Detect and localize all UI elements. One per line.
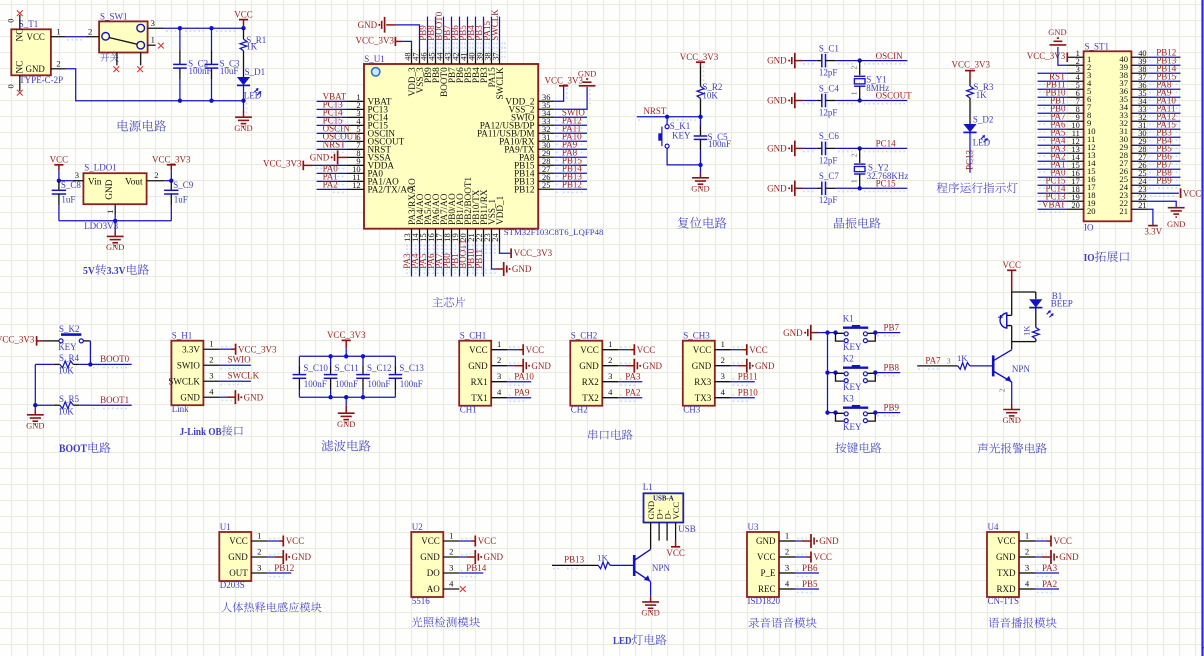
wire GND to key rail xyxy=(819,332,828,334)
svg-text:S_K1: S_K1 xyxy=(670,121,691,131)
svg-text:3: 3 xyxy=(75,170,79,180)
svg-text:PB7: PB7 xyxy=(884,322,900,332)
svg-text:TYPE-C-2P: TYPE-C-2P xyxy=(19,75,63,85)
U1 pin 24 VDD_1 xyxy=(499,229,501,244)
U1 pin 42 PB6 xyxy=(459,49,461,64)
U1 pin 10 PA0 xyxy=(348,172,365,174)
U1 pin 40 PB4 xyxy=(475,49,477,64)
svg-text:BOOT0: BOOT0 xyxy=(100,354,129,364)
svg-text:12: 12 xyxy=(352,181,360,190)
svg-text:1: 1 xyxy=(849,179,858,183)
svg-text:1: 1 xyxy=(608,339,612,349)
wire bottom rail xyxy=(299,396,395,398)
wire net PB0 xyxy=(1038,112,1068,114)
capacitor S_C1 xyxy=(803,60,817,62)
svg-text:12pF: 12pF xyxy=(819,107,838,117)
svg-text:4: 4 xyxy=(209,387,214,397)
svg-text:SWIO: SWIO xyxy=(228,355,251,365)
ST1 pin 19 xyxy=(1068,200,1084,202)
wire net PB8 xyxy=(873,370,877,374)
U1 pin 19 PB1/AO xyxy=(459,229,461,244)
connector L1 USB-A body xyxy=(644,493,684,522)
U1 pin 3 PC14 xyxy=(348,116,365,118)
ST1 pin 29 xyxy=(1131,144,1147,146)
svg-text:100nF: 100nF xyxy=(335,379,358,389)
svg-text:10K: 10K xyxy=(58,366,74,376)
power VCC at ST1 pin 23 xyxy=(1147,192,1179,194)
wire VSS_1 to GND xyxy=(492,244,496,269)
wire base PB13 xyxy=(552,564,598,566)
svg-text:GND: GND xyxy=(756,536,776,546)
svg-text:PA3: PA3 xyxy=(1042,563,1058,573)
wire net PB9 xyxy=(427,17,429,49)
svg-text:S_D1: S_D1 xyxy=(245,67,266,77)
svg-text:3: 3 xyxy=(608,371,612,381)
svg-text:GND: GND xyxy=(643,361,663,371)
U1 pin 4 PC15 xyxy=(348,124,365,126)
svg-text:DO: DO xyxy=(427,568,440,578)
svg-text:4: 4 xyxy=(1025,578,1030,588)
ST1 pin 20 xyxy=(1068,208,1084,210)
svg-text:2: 2 xyxy=(257,546,261,556)
svg-text:TX1: TX1 xyxy=(471,393,488,403)
svg-text:PA10: PA10 xyxy=(514,372,534,382)
wire net BOOT0 xyxy=(90,363,131,365)
svg-text:LDO3V3: LDO3V3 xyxy=(84,221,118,231)
ST1 pin 30 xyxy=(1131,136,1147,138)
U1 pin 32 PA11/USB/DM xyxy=(538,132,554,134)
junction xyxy=(57,179,61,183)
wire VDD_2 to VCC_3V3 xyxy=(554,86,563,101)
U1 pin 23 VSS_1 xyxy=(491,229,493,244)
wire net PB1 xyxy=(459,244,461,277)
svg-text:S_CH1: S_CH1 xyxy=(460,331,487,341)
U1 pin 31 PA10/RX xyxy=(538,140,554,142)
svg-text:1: 1 xyxy=(106,210,115,214)
svg-text:U1: U1 xyxy=(220,522,231,532)
U1 pin 1 VBAT xyxy=(348,100,365,102)
svg-text:2: 2 xyxy=(497,355,501,365)
wire net PB14 xyxy=(1147,72,1180,74)
svg-text:2: 2 xyxy=(998,388,1007,392)
caption reset circuit xyxy=(678,217,689,228)
wire VDD_1 to VCC_3V3 xyxy=(500,244,511,254)
U1 pin 5 OSCIN xyxy=(348,132,365,134)
power VCC at S_CH1 pin 1 xyxy=(522,344,524,355)
svg-text:GND: GND xyxy=(1059,552,1079,562)
svg-text:PA2: PA2 xyxy=(323,180,338,190)
wire net PC14 xyxy=(836,147,908,149)
svg-text:VCC_3V3: VCC_3V3 xyxy=(0,335,35,345)
power GND at S_CH3 pin 2 xyxy=(746,359,748,373)
svg-text:GND: GND xyxy=(1002,415,1020,425)
wire to key K2 xyxy=(828,372,836,374)
svg-text:S_C10: S_C10 xyxy=(303,363,328,373)
wire net OSCIN xyxy=(836,60,908,62)
svg-text:CH3: CH3 xyxy=(683,405,701,415)
transistor Q1 NPN xyxy=(1011,342,1013,350)
resistor R7 1K xyxy=(598,562,610,569)
svg-text:NPN: NPN xyxy=(652,563,671,573)
regulator LDO1 body xyxy=(83,173,146,204)
wire net PA5 xyxy=(1038,136,1068,138)
wire NRST xyxy=(637,116,701,118)
U1 pin 8 VSSA xyxy=(348,156,365,158)
T1 pin 0 bottom no-connect xyxy=(19,75,21,91)
svg-text:PB10: PB10 xyxy=(738,388,759,398)
wire net PB7 xyxy=(1147,168,1180,170)
svg-text:GND: GND xyxy=(1167,219,1185,229)
wire net PA8 xyxy=(1147,88,1180,90)
svg-text:NRST: NRST xyxy=(323,140,347,150)
svg-text:4: 4 xyxy=(721,387,726,397)
svg-text:GND: GND xyxy=(767,56,787,66)
svg-text:GND: GND xyxy=(310,153,330,163)
svg-text:GND: GND xyxy=(244,392,264,402)
junction xyxy=(665,115,669,119)
wire net PA6 xyxy=(435,244,437,277)
LDO1 pin 2 xyxy=(147,180,165,182)
capacitor C8 xyxy=(58,181,60,191)
svg-text:3: 3 xyxy=(257,562,261,572)
U1 pin 14 PA4/AO xyxy=(419,229,421,244)
svg-text:BEEP: BEEP xyxy=(1051,298,1073,308)
svg-text:1: 1 xyxy=(721,339,725,349)
wire net RST xyxy=(1038,80,1068,82)
svg-text:S_K2: S_K2 xyxy=(59,324,80,334)
svg-text:PB12: PB12 xyxy=(562,180,582,190)
wire VSS_3 to GND xyxy=(395,25,419,49)
svg-text:LED: LED xyxy=(244,91,262,101)
svg-text:K1: K1 xyxy=(843,314,854,324)
svg-text:S_C6: S_C6 xyxy=(819,131,840,141)
wire at ST1 pin 3 xyxy=(1038,72,1068,74)
svg-text:PC14: PC14 xyxy=(876,139,897,149)
svg-text:PB5: PB5 xyxy=(802,579,818,589)
power GND at U3 pin 1 xyxy=(810,534,812,548)
svg-text:AO: AO xyxy=(427,584,440,594)
svg-text:VCC_3V3: VCC_3V3 xyxy=(263,159,302,169)
no-connect at U2 pin 4 xyxy=(460,586,466,592)
svg-text:S_C7: S_C7 xyxy=(819,171,840,181)
svg-text:VCC_3V3: VCC_3V3 xyxy=(238,344,277,354)
wire ground rail xyxy=(59,220,171,222)
connector S_CH2 xyxy=(570,341,602,406)
pushbutton K1 xyxy=(666,117,668,125)
svg-text:VCC: VCC xyxy=(757,552,776,562)
svg-text:PA2: PA2 xyxy=(625,388,640,398)
ST1 pin 32 xyxy=(1131,120,1147,122)
svg-text:KEY: KEY xyxy=(843,342,862,352)
power GND at U1 pin 23 xyxy=(503,262,505,276)
connector U1 xyxy=(219,532,251,581)
svg-text:S_D2: S_D2 xyxy=(973,114,994,124)
L1 pin 1 GND xyxy=(650,523,652,550)
svg-text:GND: GND xyxy=(26,420,44,430)
wire to key K1 xyxy=(828,332,836,334)
svg-text:PB11: PB11 xyxy=(738,372,758,382)
wire to key K3 xyxy=(828,412,836,414)
power VCC at U1 pin 1 xyxy=(282,536,284,547)
ST1 pin 10 xyxy=(1068,128,1084,130)
ST1 pin 31 xyxy=(1131,128,1147,130)
caption voice broadcast module xyxy=(988,617,999,627)
caption PIR module xyxy=(221,602,231,612)
U1 pin 29 PA8 xyxy=(538,156,554,158)
wire net NRST xyxy=(317,148,348,150)
wire net PA3 xyxy=(411,244,413,277)
power GND bottom xyxy=(243,101,245,111)
svg-text:10uF: 10uF xyxy=(220,66,239,76)
junction xyxy=(241,26,245,30)
svg-text:0: 0 xyxy=(7,19,16,23)
U1 pin 15 PA5/AO xyxy=(427,229,429,244)
svg-text:VBAT: VBAT xyxy=(1042,200,1066,210)
wire net PC13 xyxy=(969,133,971,173)
ST1 pin 21 xyxy=(1131,208,1147,210)
pushbutton K2 xyxy=(836,373,844,381)
ST1 pin 24 xyxy=(1131,184,1147,186)
svg-text:PB11: PB11 xyxy=(474,249,484,269)
svg-text:S_C9: S_C9 xyxy=(173,180,194,190)
svg-text:S_H1: S_H1 xyxy=(172,330,193,340)
svg-text:VCC: VCC xyxy=(229,536,248,546)
junction xyxy=(33,403,37,407)
svg-text:12pF: 12pF xyxy=(819,195,838,205)
wire T1 VCC to SW1 xyxy=(65,36,85,38)
svg-text:GND: GND xyxy=(819,536,839,546)
T1 pin 1 VCC xyxy=(51,36,66,38)
U1 pin 11 PA1/AO xyxy=(348,180,365,182)
svg-text:2: 2 xyxy=(209,355,213,365)
wire net PB12 xyxy=(1147,56,1180,58)
resistor R3 xyxy=(969,78,971,86)
svg-text:GND: GND xyxy=(691,183,709,193)
junction xyxy=(169,179,173,183)
power VCC at S_CH3 pin 1 xyxy=(746,344,748,355)
svg-text:J-Link OB: J-Link OB xyxy=(180,426,223,438)
svg-text:S_LDO1: S_LDO1 xyxy=(84,163,117,173)
svg-text:1: 1 xyxy=(56,26,60,36)
wire net PB3 xyxy=(483,17,485,49)
wire net PB10 xyxy=(1038,96,1068,98)
wire net PB6 xyxy=(459,17,461,49)
svg-text:STM32F103C8T6_LQFP48: STM32F103C8T6_LQFP48 xyxy=(504,227,604,237)
svg-text:K3: K3 xyxy=(843,394,854,404)
wire net PC15 xyxy=(1038,184,1068,186)
svg-text:VCC_3V3: VCC_3V3 xyxy=(680,52,719,62)
svg-text:100nF: 100nF xyxy=(400,379,423,389)
connector U3 xyxy=(747,532,779,597)
svg-text:3: 3 xyxy=(785,562,789,572)
wire net PB4 xyxy=(1147,144,1180,146)
svg-text:32.768KHz: 32.768KHz xyxy=(867,171,909,181)
svg-text:VCC_3V3: VCC_3V3 xyxy=(355,35,394,45)
svg-text:GND: GND xyxy=(234,123,252,133)
power GND at U1 pin 2 xyxy=(282,550,284,564)
wire net PA0 xyxy=(317,172,348,174)
T1 pin 2 GND xyxy=(51,68,66,70)
wire left rail xyxy=(34,364,36,405)
wire net PB7 xyxy=(451,17,453,49)
svg-text:VCC: VCC xyxy=(813,552,832,562)
svg-text:GND: GND xyxy=(228,552,248,562)
svg-text:NC: NC xyxy=(16,28,26,41)
power VCC at U3 pin 2 xyxy=(810,552,812,563)
svg-text:SWIO: SWIO xyxy=(177,360,200,370)
junction xyxy=(88,362,92,366)
U1 pin 21 PB10/TX xyxy=(475,229,477,244)
wire net PB14 xyxy=(459,572,483,574)
wire net PC15 xyxy=(317,124,348,126)
svg-text:100nF: 100nF xyxy=(708,139,731,149)
L1 pin 2 D+ xyxy=(658,523,660,541)
resistor R1 xyxy=(243,28,245,39)
caption filter circuit xyxy=(321,440,333,451)
U1 pin 12 PA2/TX/AO xyxy=(348,188,365,190)
svg-text:S_U1: S_U1 xyxy=(364,54,385,64)
ST1 pin 7 xyxy=(1068,104,1084,106)
svg-text:1K: 1K xyxy=(957,353,968,363)
svg-text:VCC: VCC xyxy=(234,10,253,20)
wire net PA12 xyxy=(1147,120,1180,122)
svg-text:1: 1 xyxy=(785,530,789,540)
L1 pin 3 D- xyxy=(666,523,668,541)
caption program run indicator xyxy=(937,182,948,193)
resistor R2 xyxy=(700,66,702,87)
svg-text:VCC: VCC xyxy=(1053,536,1072,546)
svg-text:KEY: KEY xyxy=(672,131,691,141)
svg-text:VCC: VCC xyxy=(1002,260,1021,270)
svg-text:GND: GND xyxy=(337,419,355,429)
wire net PB12 xyxy=(267,572,291,574)
svg-text:PB13: PB13 xyxy=(564,554,585,564)
ST1 pin 36 xyxy=(1131,88,1147,90)
power VCC_3V3 at U1 pin 24 xyxy=(510,248,512,258)
power GND xyxy=(1011,404,1013,410)
svg-text:1: 1 xyxy=(151,34,155,44)
U1 pin 20 PB2/BOOT1 xyxy=(467,229,469,244)
wire T1 GND to bottom rail xyxy=(65,69,243,101)
svg-text:VCC: VCC xyxy=(526,345,545,355)
svg-text:3: 3 xyxy=(947,356,951,365)
svg-text:VCC: VCC xyxy=(997,536,1016,546)
svg-text:VCC_3V3: VCC_3V3 xyxy=(1027,51,1066,61)
svg-text:S_C4: S_C4 xyxy=(819,83,840,93)
U1 pin 22 PB11/RX xyxy=(483,229,485,244)
svg-text:VCC_3V3: VCC_3V3 xyxy=(952,59,991,69)
ST1 pin 27 xyxy=(1131,160,1147,162)
svg-text:S_C8: S_C8 xyxy=(61,180,82,190)
svg-text:CH2: CH2 xyxy=(571,405,588,415)
svg-text:21: 21 xyxy=(1119,206,1128,216)
ST1 pin 15 xyxy=(1068,168,1084,170)
U1 pin 17 PA7/AO xyxy=(443,229,445,244)
U1 pin 7 NRST xyxy=(348,148,365,150)
svg-text:S_C11: S_C11 xyxy=(335,363,359,373)
ST1 pin 38 xyxy=(1131,72,1147,74)
U1 pin 25 PB12 xyxy=(538,188,554,190)
svg-text:REC: REC xyxy=(758,584,776,594)
svg-text:Vout: Vout xyxy=(125,177,143,187)
wire net PB7 xyxy=(873,330,877,334)
svg-text:3: 3 xyxy=(151,18,155,28)
wire net PB11 xyxy=(483,244,485,277)
wire to LDO1 Vin xyxy=(59,180,73,182)
svg-text:PB8: PB8 xyxy=(884,362,900,372)
svg-text:GND: GND xyxy=(578,68,596,78)
svg-text:2: 2 xyxy=(449,546,453,556)
svg-text:NC: NC xyxy=(16,61,26,74)
wire net PA9 xyxy=(554,148,587,150)
ST1 pin 6 xyxy=(1068,96,1084,98)
sheet border right xyxy=(1201,0,1203,656)
wire bottom branch xyxy=(1012,341,1036,343)
capacitor C3 xyxy=(209,26,213,30)
svg-text:1uF: 1uF xyxy=(174,194,188,204)
wire net PA3 xyxy=(1035,572,1059,574)
svg-text:GND: GND xyxy=(26,64,46,74)
ST1 pin 25 xyxy=(1131,176,1147,178)
U1 pin 33 PA12/USB/DP xyxy=(538,124,554,126)
wire net PB4 xyxy=(475,17,477,49)
svg-text:4: 4 xyxy=(497,387,502,397)
svg-text:1K: 1K xyxy=(246,42,257,52)
U1 pin 27 PB14 xyxy=(538,172,554,174)
SW1 pin 3 xyxy=(148,27,164,29)
wire net PA5 xyxy=(427,244,429,277)
power 3.3V at ST1 pin 21 xyxy=(1147,209,1153,225)
svg-text:S_C13: S_C13 xyxy=(399,363,424,373)
svg-text:GND: GND xyxy=(468,361,488,371)
wire key to ground rail xyxy=(667,148,700,165)
svg-text:1: 1 xyxy=(257,530,261,540)
svg-text:ISD1820: ISD1820 xyxy=(748,596,781,606)
junction xyxy=(113,219,117,223)
svg-text:10K: 10K xyxy=(702,90,718,100)
svg-text:VCC: VCC xyxy=(693,345,712,355)
U1 pin 45 PB8 xyxy=(435,49,437,64)
power GND at ST1 pin 2 xyxy=(1058,47,1068,65)
ST1 pin 9 xyxy=(1068,120,1084,122)
power GND xyxy=(642,601,659,603)
svg-text:20: 20 xyxy=(1087,206,1096,216)
junction xyxy=(328,395,332,399)
svg-text:4: 4 xyxy=(449,578,454,588)
svg-text:K2: K2 xyxy=(843,354,854,364)
wire net PA1 xyxy=(317,180,348,182)
power GND at ST1 pin 22 xyxy=(1147,201,1176,208)
wire net PA3 xyxy=(1038,152,1068,154)
svg-text:4: 4 xyxy=(785,578,790,588)
svg-text:GND: GND xyxy=(579,361,599,371)
svg-text:3: 3 xyxy=(209,371,213,381)
svg-text:2: 2 xyxy=(849,66,858,70)
svg-text:100nF: 100nF xyxy=(304,379,327,389)
wire net PA15 xyxy=(1147,128,1180,130)
ST1 pin 23 xyxy=(1131,192,1147,194)
U1 pin 39 PB3 xyxy=(483,49,485,64)
caption power circuit xyxy=(118,120,129,131)
wire VSS_2 to GND xyxy=(554,87,587,109)
svg-text:3: 3 xyxy=(1025,562,1029,572)
svg-text:RX3: RX3 xyxy=(694,377,712,387)
wire net SWIO xyxy=(554,116,587,118)
svg-text:VCC: VCC xyxy=(286,536,305,546)
svg-text:S_CH3: S_CH3 xyxy=(683,331,710,341)
wire net OSCOUT xyxy=(836,100,908,102)
wire net PB13 xyxy=(1147,64,1180,66)
